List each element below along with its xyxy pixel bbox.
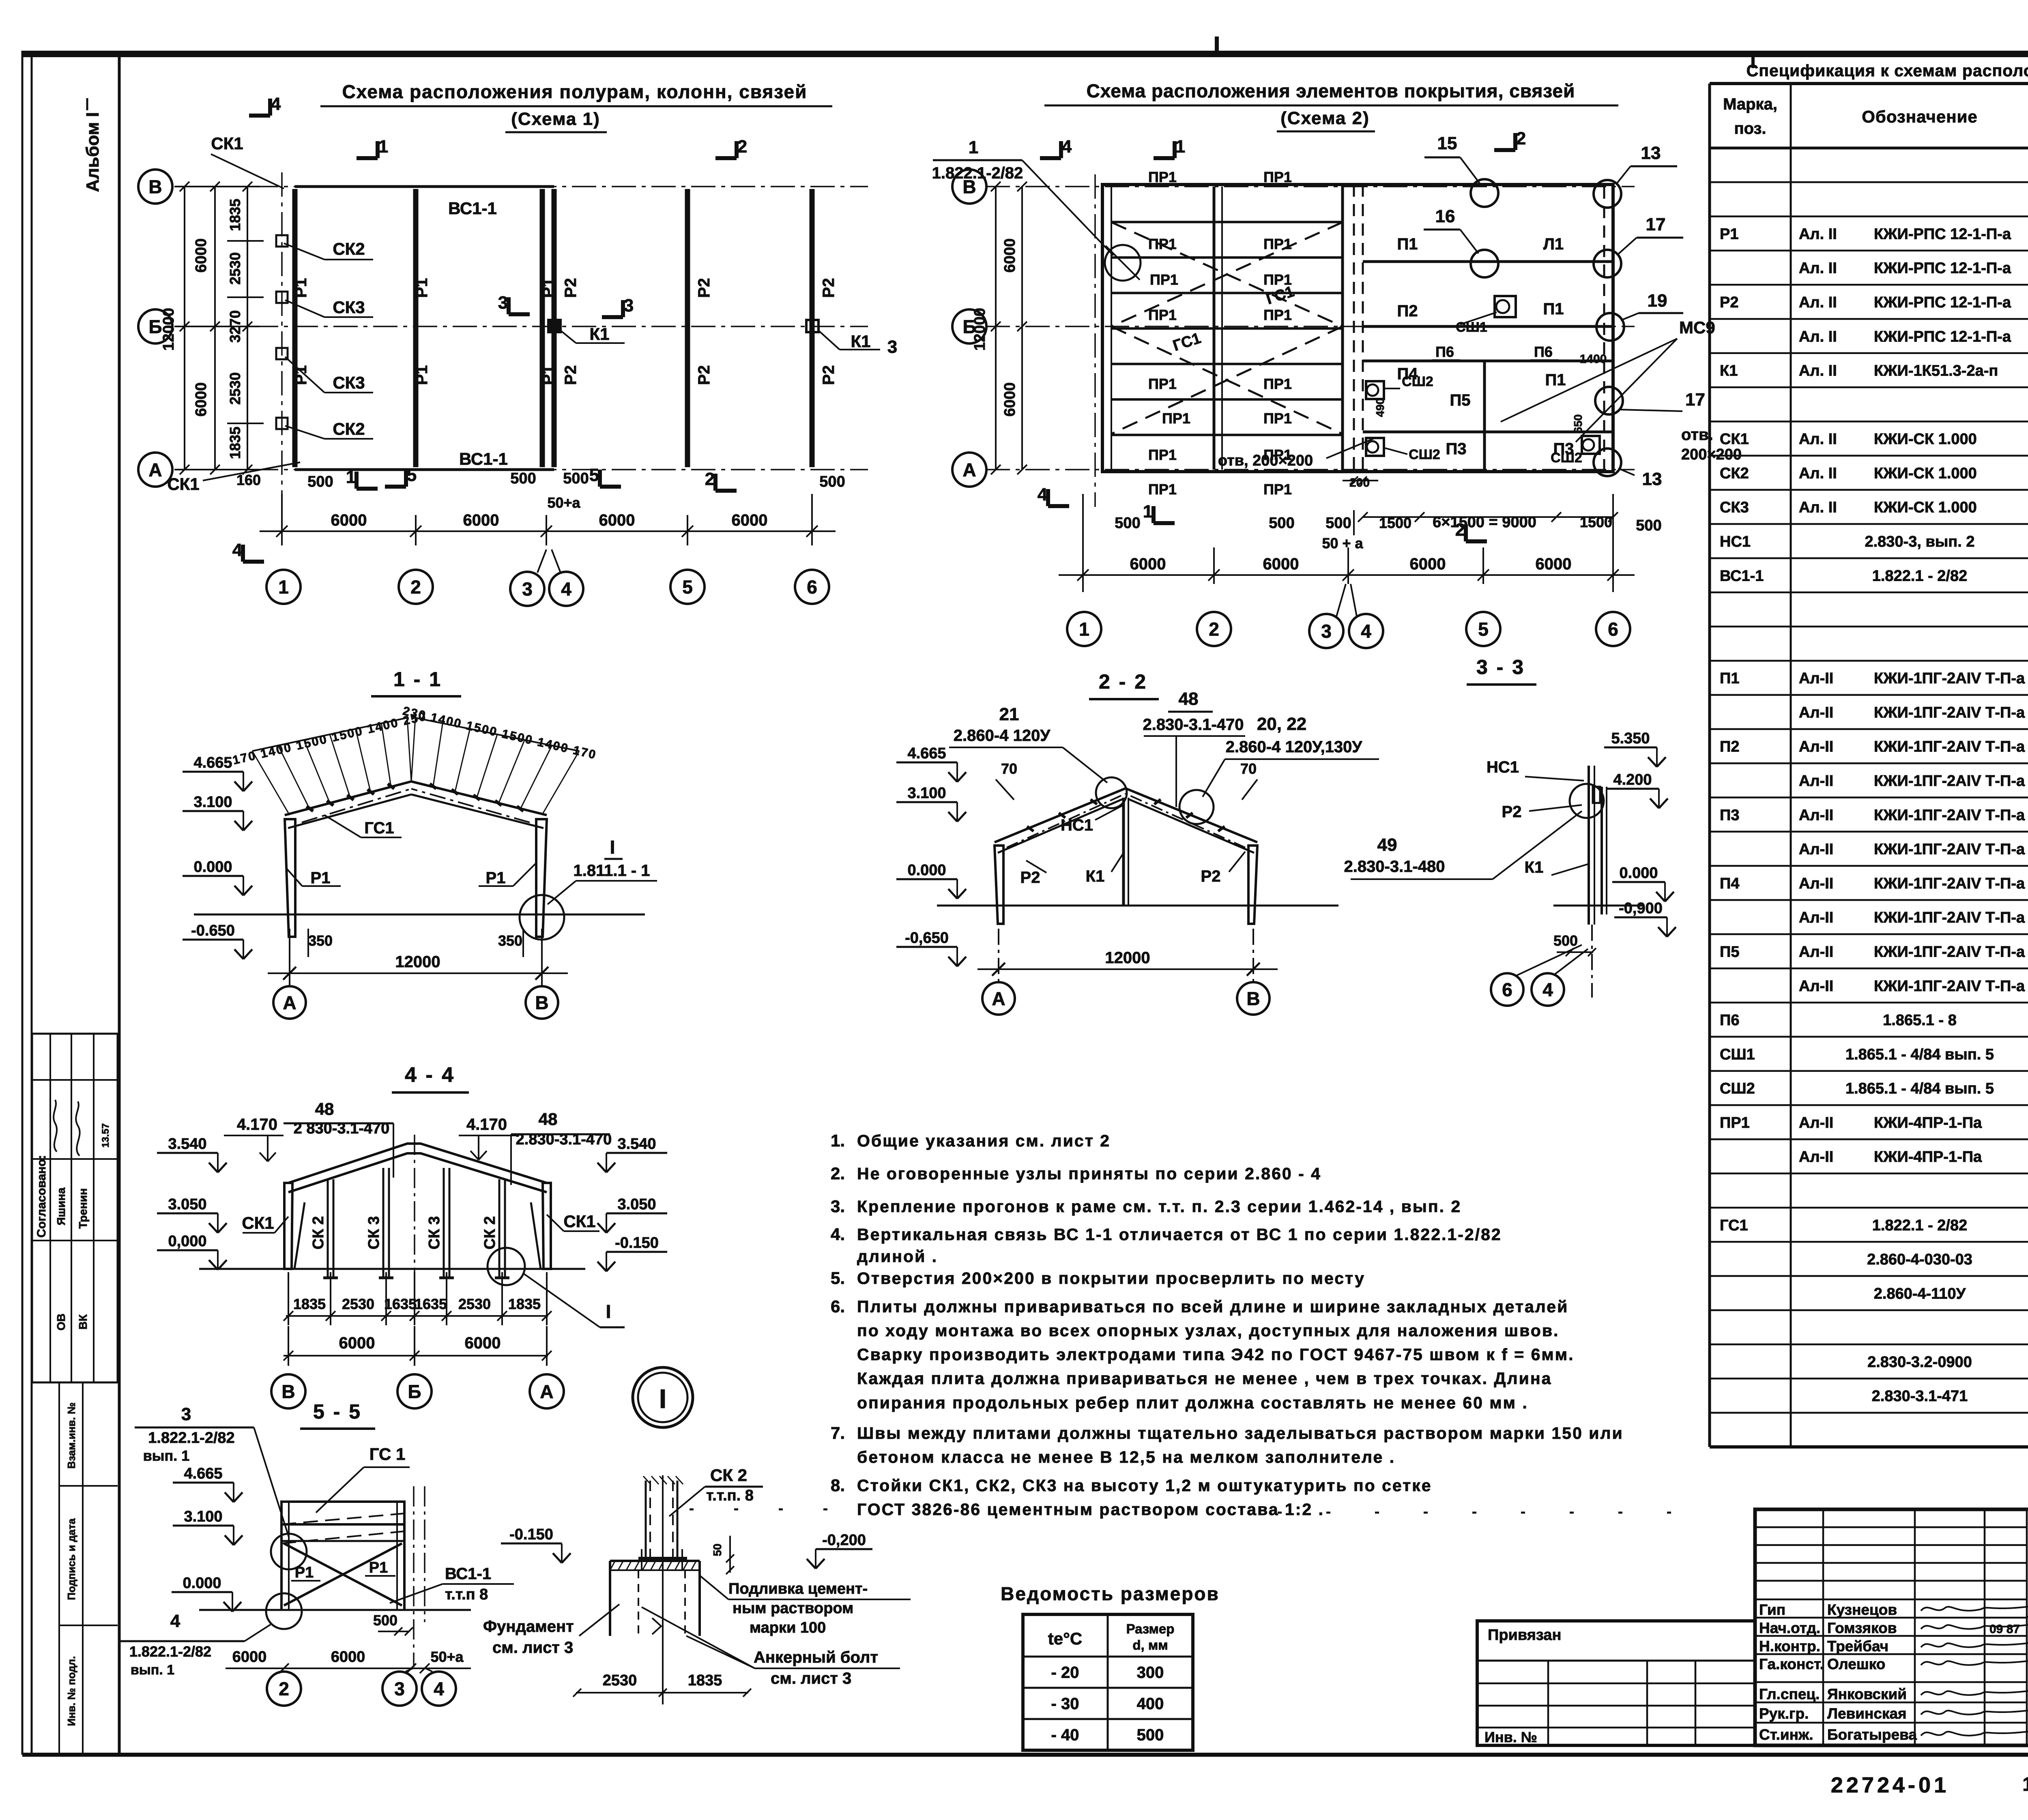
svg-text:Ал-II: Ал-II — [1799, 738, 1833, 755]
svg-text:Р1: Р1 — [413, 365, 431, 385]
svg-text:500: 500 — [1137, 1726, 1164, 1744]
svg-text:1835: 1835 — [688, 1672, 722, 1689]
svg-text:-0,650: -0,650 — [905, 929, 949, 946]
svg-text:2530: 2530 — [458, 1296, 491, 1312]
svg-text:ВС1-1: ВС1-1 — [448, 199, 497, 218]
svg-text:3.540: 3.540 — [168, 1135, 206, 1153]
svg-text:-0,200: -0,200 — [822, 1532, 866, 1549]
svg-text:16: 16 — [1435, 206, 1455, 226]
svg-text:6000: 6000 — [732, 511, 768, 529]
svg-text:3.: 3. — [831, 1197, 845, 1216]
svg-text:Рук.гр.: Рук.гр. — [1759, 1705, 1809, 1722]
svg-text:ПР1: ПР1 — [1148, 446, 1177, 463]
svg-text:Каждая плита должна привари: Каждая плита должна привариваться не мен… — [857, 1369, 1552, 1388]
svg-text:0,000: 0,000 — [168, 1233, 206, 1250]
svg-text:- 30: - 30 — [1051, 1695, 1079, 1713]
svg-text:СК 3: СК 3 — [426, 1216, 443, 1249]
svg-text:Спецификация к схемам располож: Спецификация к схемам расположения полур… — [1747, 61, 2028, 80]
svg-text:Анкерный болт: Анкерный болт — [754, 1648, 878, 1666]
svg-text:Янковский: Янковский — [1827, 1686, 1907, 1702]
svg-text:6000: 6000 — [193, 382, 210, 417]
svg-text:Р1: Р1 — [539, 365, 557, 385]
svg-text:Ал-II: Ал-II — [1799, 909, 1833, 926]
svg-text:ВК: ВК — [77, 1314, 89, 1329]
svg-text:4: 4 — [271, 94, 281, 114]
svg-text:500: 500 — [1269, 515, 1294, 532]
svg-text:3: 3 — [522, 579, 533, 600]
svg-text:Подпись и дата: Подпись и дата — [65, 1518, 77, 1600]
svg-text:5: 5 — [407, 465, 417, 485]
svg-text:т.т.п. 8: т.т.п. 8 — [706, 1487, 754, 1504]
svg-text:7.: 7. — [831, 1423, 845, 1442]
svg-text:1.822.1-2/82: 1.822.1-2/82 — [129, 1643, 211, 1660]
svg-text:50+a: 50+a — [430, 1648, 464, 1665]
svg-text:2: 2 — [737, 137, 747, 157]
svg-text:Ал-II: Ал-II — [1799, 875, 1833, 892]
svg-text:ПР1: ПР1 — [1263, 169, 1292, 185]
svg-text:48: 48 — [1179, 689, 1199, 709]
svg-text:4.665: 4.665 — [184, 1465, 222, 1482]
svg-text:Р2: Р2 — [1502, 803, 1522, 821]
svg-text:КЖИ-1ПГ-2АIV Т-П-а: КЖИ-1ПГ-2АIV Т-П-а — [1874, 704, 2025, 721]
svg-text:ПР1: ПР1 — [1263, 481, 1292, 498]
svg-text:КЖИ-РПС 12-1-П-а: КЖИ-РПС 12-1-П-а — [1874, 328, 2011, 345]
svg-text:СК2: СК2 — [1720, 465, 1749, 482]
svg-text:ПР1: ПР1 — [1148, 307, 1177, 323]
svg-text:500: 500 — [1553, 932, 1578, 949]
svg-text:2.830-3.1-470: 2.830-3.1-470 — [1143, 716, 1244, 734]
svg-text:Р1: Р1 — [1720, 225, 1738, 243]
svg-text:6000: 6000 — [599, 511, 635, 529]
svg-text:1: 1 — [1175, 137, 1185, 157]
svg-text:2.860-4 120У: 2.860-4 120У — [954, 727, 1051, 745]
svg-text:вып. 1: вып. 1 — [143, 1447, 190, 1464]
svg-text:6000: 6000 — [1410, 555, 1446, 573]
svg-text:П4: П4 — [1720, 875, 1739, 892]
svg-text:А: А — [148, 459, 162, 481]
svg-text:Р2: Р2 — [820, 365, 838, 385]
svg-text:Размер: Размер — [1126, 1621, 1175, 1636]
svg-text:0.000: 0.000 — [907, 862, 946, 879]
svg-text:6000: 6000 — [1001, 238, 1018, 273]
svg-text:4.665: 4.665 — [907, 745, 946, 762]
svg-text:вып. 1: вып. 1 — [131, 1662, 174, 1678]
svg-text:2: 2 — [705, 469, 715, 489]
svg-text:Р2: Р2 — [1720, 294, 1738, 311]
svg-text:Ал-II: Ал-II — [1799, 773, 1833, 790]
svg-text:400: 400 — [1137, 1695, 1164, 1713]
svg-text:КЖИ-4ПР-1-Па: КЖИ-4ПР-1-Па — [1874, 1148, 1982, 1165]
svg-text:Р1: Р1 — [486, 869, 506, 887]
svg-text:3.050: 3.050 — [168, 1196, 206, 1213]
svg-text:6000: 6000 — [193, 238, 210, 273]
svg-text:Отверстия 200×200 в покрыти: Отверстия 200×200 в покрытии просверлить… — [857, 1269, 1365, 1288]
svg-text:бетоном класса не менее В: бетоном класса не менее В 12,5 на мелком… — [857, 1448, 1395, 1466]
svg-text:Гип: Гип — [1759, 1601, 1785, 1618]
svg-text:Левинская: Левинская — [1827, 1705, 1907, 1722]
svg-text:1: 1 — [278, 577, 289, 598]
svg-text:Р2: Р2 — [695, 365, 713, 385]
svg-text:КЖИ-4ПР-1-Па: КЖИ-4ПР-1-Па — [1874, 1114, 1982, 1131]
svg-text:1.822.1-2/82: 1.822.1-2/82 — [932, 164, 1023, 182]
svg-text:21: 21 — [999, 704, 1019, 724]
svg-text:48: 48 — [315, 1099, 334, 1118]
svg-text:СШ1: СШ1 — [1720, 1046, 1755, 1063]
svg-text:ПР1: ПР1 — [1263, 307, 1292, 323]
svg-text:17: 17 — [2022, 1774, 2028, 1795]
svg-text:1.822.1 - 2/82: 1.822.1 - 2/82 — [1872, 567, 1968, 584]
svg-text:1.822.1 - 2/82: 1.822.1 - 2/82 — [1872, 1217, 1968, 1234]
svg-text:Фундамент: Фундамент — [483, 1618, 574, 1635]
svg-text:09 87: 09 87 — [1989, 1623, 2020, 1636]
svg-text:ПР1: ПР1 — [1263, 376, 1292, 392]
svg-text:1635: 1635 — [384, 1296, 417, 1312]
svg-text:КЖИ-РПС 12-1-П-а: КЖИ-РПС 12-1-П-а — [1874, 294, 2011, 311]
svg-text:12000: 12000 — [1105, 949, 1150, 967]
svg-text:350: 350 — [308, 932, 333, 949]
svg-text:Р1: Р1 — [295, 1564, 314, 1581]
svg-text:6: 6 — [1502, 979, 1512, 1000]
svg-text:1400: 1400 — [1580, 352, 1607, 366]
svg-text:Швы между плитами должны т: Швы между плитами должны тщательно задел… — [857, 1424, 1624, 1442]
svg-text:Гл.спец.: Гл.спец. — [1759, 1686, 1820, 1702]
svg-text:А: А — [962, 459, 976, 481]
svg-text:4: 4 — [1062, 137, 1072, 157]
svg-text:Ал-II: Ал-II — [1799, 841, 1833, 858]
svg-text:КЖИ-СК 1.000: КЖИ-СК 1.000 — [1874, 431, 1977, 448]
svg-text:3.100: 3.100 — [907, 785, 946, 802]
svg-text:В: В — [1246, 988, 1260, 1009]
svg-text:1.811.1 - 1: 1.811.1 - 1 — [573, 862, 650, 880]
svg-text:СК3: СК3 — [333, 298, 365, 317]
svg-text:1.822.1-2/82: 1.822.1-2/82 — [148, 1429, 234, 1447]
svg-text:490: 490 — [1374, 398, 1386, 417]
svg-text:4: 4 — [1361, 621, 1371, 642]
svg-text:ВС1-1: ВС1-1 — [1720, 567, 1764, 584]
svg-text:НС1: НС1 — [1061, 816, 1093, 834]
svg-text:Вертикальная связь ВС 1-1 о: Вертикальная связь ВС 1-1 отличается от … — [857, 1225, 1502, 1244]
svg-text:Ал. II: Ал. II — [1799, 499, 1837, 516]
svg-text:КЖИ-1ПГ-2АIV Т-П-а: КЖИ-1ПГ-2АIV Т-П-а — [1874, 943, 2025, 960]
svg-text:А: А — [283, 992, 296, 1013]
svg-text:17: 17 — [1685, 390, 1705, 410]
svg-text:ГОСТ 3826-86 цементным раст: ГОСТ 3826-86 цементным раствором состава… — [857, 1500, 1324, 1519]
svg-text:3.540: 3.540 — [617, 1135, 656, 1153]
svg-text:СШ2: СШ2 — [1551, 450, 1582, 466]
svg-text:КЖИ-1ПГ-2АIV Т-П-а: КЖИ-1ПГ-2АIV Т-П-а — [1874, 773, 2025, 790]
svg-text:5: 5 — [682, 577, 693, 598]
svg-text:К1: К1 — [1525, 858, 1544, 876]
svg-text:-0.150: -0.150 — [509, 1526, 553, 1543]
svg-text:КЖИ-1К51.3-2а-п: КЖИ-1К51.3-2а-п — [1874, 363, 1998, 380]
svg-text:СК3: СК3 — [1720, 499, 1749, 516]
svg-text:13: 13 — [1642, 469, 1662, 489]
svg-text:СШ1: СШ1 — [1456, 320, 1487, 335]
svg-text:1: 1 — [969, 137, 978, 157]
svg-text:6000: 6000 — [331, 511, 367, 529]
svg-text:Согласовано:: Согласовано: — [35, 1155, 48, 1238]
svg-text:50+a: 50+a — [547, 494, 580, 511]
svg-text:П6: П6 — [1534, 343, 1553, 360]
svg-text:Ведомость размеров: Ведомость размеров — [1001, 1583, 1220, 1604]
svg-text:350: 350 — [498, 932, 522, 949]
svg-text:5.350: 5.350 — [1611, 730, 1650, 747]
svg-text:Б: Б — [408, 1381, 421, 1402]
svg-text:200×200: 200×200 — [1681, 446, 1742, 463]
svg-text:2530: 2530 — [603, 1672, 637, 1689]
svg-text:СК 2: СК 2 — [710, 1466, 747, 1485]
svg-text:2.830-3.1-471: 2.830-3.1-471 — [1872, 1388, 1968, 1405]
svg-text:12000: 12000 — [160, 308, 177, 351]
svg-text:КЖИ-1ПГ-2АIV Т-П-а: КЖИ-1ПГ-2АIV Т-П-а — [1874, 909, 2025, 926]
svg-text:500: 500 — [1636, 517, 1661, 534]
svg-text:марки 100: марки 100 — [750, 1619, 826, 1636]
svg-text:3: 3 — [1321, 621, 1332, 642]
svg-text:Ал-II: Ал-II — [1799, 1114, 1833, 1131]
svg-text:СК2: СК2 — [333, 239, 365, 258]
svg-text:СК1: СК1 — [242, 1213, 274, 1232]
svg-text:Обозначение: Обозначение — [1862, 107, 1978, 126]
svg-text:d, мм: d, мм — [1132, 1638, 1168, 1653]
svg-text:2: 2 — [279, 1678, 289, 1700]
svg-text:22724-01: 22724-01 — [1831, 1773, 1949, 1797]
svg-text:6000: 6000 — [1001, 382, 1018, 417]
svg-text:СШ2: СШ2 — [1402, 374, 1433, 389]
svg-text:КЖИ-СК 1.000: КЖИ-СК 1.000 — [1874, 499, 1977, 516]
svg-text:Р1: Р1 — [292, 365, 310, 385]
svg-text:Привязан: Привязан — [1488, 1627, 1561, 1644]
svg-text:В: В — [281, 1381, 295, 1402]
svg-text:70: 70 — [1240, 760, 1257, 777]
svg-text:П1: П1 — [1543, 300, 1564, 318]
svg-text:Р1: Р1 — [369, 1559, 388, 1576]
svg-text:Кузнецов: Кузнецов — [1827, 1601, 1897, 1618]
svg-text:Ал-II: Ал-II — [1799, 807, 1833, 824]
svg-text:0.000: 0.000 — [193, 858, 232, 876]
svg-text:Марка,: Марка, — [1723, 95, 1777, 113]
svg-text:см. лист 3: см. лист 3 — [492, 1639, 573, 1657]
svg-text:2: 2 — [1209, 619, 1219, 640]
svg-text:Схема расположения элементов п: Схема расположения элементов покрытия, с… — [1087, 80, 1575, 101]
svg-text:500: 500 — [819, 473, 845, 490]
svg-text:П3: П3 — [1446, 440, 1467, 458]
svg-text:13.57: 13.57 — [100, 1123, 111, 1148]
svg-text:500: 500 — [510, 470, 536, 487]
svg-text:Тренин: Тренин — [77, 1188, 89, 1229]
svg-text:3: 3 — [181, 1404, 191, 1424]
svg-text:3: 3 — [624, 296, 634, 315]
svg-text:Р2: Р2 — [1201, 867, 1221, 885]
svg-text:ПР1: ПР1 — [1148, 376, 1177, 392]
svg-text:0.000: 0.000 — [1619, 865, 1658, 882]
svg-text:2 - 2: 2 - 2 — [1099, 670, 1147, 693]
svg-text:П1: П1 — [1720, 670, 1739, 687]
svg-text:-0.650: -0.650 — [191, 922, 235, 939]
svg-text:500: 500 — [307, 473, 333, 490]
svg-text:по ходу монтажа во всех оп: по ходу монтажа во всех опорных узлах, д… — [857, 1321, 1559, 1340]
svg-text:170 1400 1500 1500 1400 250: 170 1400 1500 1500 1400 250 — [232, 710, 428, 767]
svg-text:12000: 12000 — [971, 308, 988, 351]
svg-text:20, 22: 20, 22 — [1257, 714, 1306, 734]
svg-text:-0.150: -0.150 — [615, 1234, 659, 1251]
svg-text:Яшина: Яшина — [55, 1187, 67, 1225]
svg-text:Ст.инж.: Ст.инж. — [1759, 1726, 1813, 1743]
svg-text:К1: К1 — [851, 332, 871, 351]
svg-text:ГС1: ГС1 — [1720, 1217, 1748, 1234]
svg-text:ПР1: ПР1 — [1720, 1114, 1750, 1131]
svg-text:6000: 6000 — [331, 1648, 365, 1665]
svg-text:Ал. II: Ал. II — [1799, 431, 1837, 448]
svg-text:4.170: 4.170 — [237, 1116, 277, 1133]
svg-text:2: 2 — [410, 577, 421, 598]
svg-text:КЖИ-РПС 12-1-П-а: КЖИ-РПС 12-1-П-а — [1874, 260, 2011, 277]
svg-text:поз.: поз. — [1734, 120, 1766, 137]
svg-text:Р1: Р1 — [539, 278, 557, 298]
svg-text:6.: 6. — [831, 1297, 845, 1316]
svg-text:6000: 6000 — [232, 1648, 267, 1665]
svg-text:Ал. II: Ал. II — [1799, 225, 1837, 243]
svg-text:650: 650 — [1572, 414, 1584, 434]
svg-text:Га.конст.: Га.конст. — [1759, 1656, 1824, 1672]
svg-text:Р2: Р2 — [562, 278, 580, 298]
svg-text:Р2: Р2 — [562, 365, 580, 385]
svg-text:КЖИ-1ПГ-2АIV Т-П-а: КЖИ-1ПГ-2АIV Т-П-а — [1874, 807, 2025, 824]
svg-text:4: 4 — [170, 1611, 180, 1631]
svg-text:Л1: Л1 — [1543, 235, 1564, 253]
svg-text:Инв. №: Инв. № — [1484, 1729, 1537, 1745]
svg-text:КЖИ-РПС 12-1-П-а: КЖИ-РПС 12-1-П-а — [1874, 225, 2011, 243]
svg-text:ПР1: ПР1 — [1148, 481, 1177, 498]
svg-text:ным раствором: ным раствором — [733, 1600, 853, 1617]
svg-text:СК 2: СК 2 — [481, 1216, 498, 1249]
svg-text:Ал-II: Ал-II — [1799, 670, 1833, 687]
svg-text:ПР1: ПР1 — [1263, 236, 1292, 252]
svg-text:К1: К1 — [590, 324, 610, 343]
svg-text:- 20: - 20 — [1051, 1664, 1079, 1682]
svg-text:Сварку производить электрода: Сварку производить электродами типа Э42 … — [857, 1345, 1574, 1364]
svg-text:2.860-4-030-03: 2.860-4-030-03 — [1867, 1251, 1972, 1268]
svg-text:СК 3: СК 3 — [365, 1216, 382, 1249]
svg-text:6000: 6000 — [1130, 555, 1166, 573]
svg-text:Альбом I: Альбом I — [83, 112, 103, 192]
svg-text:Р2: Р2 — [1020, 869, 1040, 886]
svg-text:СК2: СК2 — [333, 419, 365, 438]
svg-text:2.830-3, вып. 2: 2.830-3, вып. 2 — [1865, 533, 1974, 550]
svg-text:Крепление прогонов к раме: Крепление прогонов к раме см. т.т. п. 2.… — [857, 1197, 1461, 1216]
svg-text:6000: 6000 — [339, 1334, 375, 1352]
svg-text:ПР1: ПР1 — [1148, 169, 1177, 185]
svg-text:3 - 3: 3 - 3 — [1476, 656, 1525, 678]
svg-text:6000: 6000 — [465, 1334, 501, 1352]
svg-text:1.865.1 - 4/84 вып. 5: 1.865.1 - 4/84 вып. 5 — [1845, 1080, 1994, 1097]
svg-text:Н.контр.: Н.контр. — [1759, 1638, 1820, 1655]
svg-text:160: 160 — [236, 472, 261, 488]
svg-text:1635: 1635 — [415, 1296, 447, 1312]
svg-text:СШ2: СШ2 — [1409, 447, 1440, 462]
svg-text:4: 4 — [1542, 979, 1553, 1000]
svg-text:1.865.1 - 8: 1.865.1 - 8 — [1883, 1012, 1957, 1029]
svg-text:2530: 2530 — [227, 372, 243, 405]
svg-text:В: В — [535, 992, 548, 1013]
svg-text:15: 15 — [1437, 133, 1457, 153]
svg-text:П6: П6 — [1720, 1012, 1739, 1029]
svg-text:I: I — [659, 1384, 666, 1414]
svg-text:НС1: НС1 — [1487, 758, 1519, 776]
svg-text:Ал. II: Ал. II — [1799, 465, 1837, 482]
svg-text:Подливка цемент-: Подливка цемент- — [728, 1580, 868, 1597]
svg-text:4: 4 — [434, 1678, 444, 1700]
svg-text:500: 500 — [1115, 515, 1140, 532]
svg-text:ОВ: ОВ — [55, 1313, 67, 1331]
svg-text:П2: П2 — [1720, 738, 1739, 755]
svg-text:КЖИ-1ПГ-2АIV Т-П-а: КЖИ-1ПГ-2АIV Т-П-а — [1874, 738, 2025, 755]
svg-text:49: 49 — [1377, 835, 1397, 855]
svg-text:4 - 4: 4 - 4 — [405, 1063, 455, 1087]
svg-text:3: 3 — [394, 1678, 405, 1700]
svg-text:(Схема 1): (Схема 1) — [511, 109, 600, 129]
svg-text:12000: 12000 — [395, 953, 440, 971]
svg-text:К1: К1 — [1720, 363, 1738, 380]
svg-text:3.100: 3.100 — [193, 794, 232, 811]
svg-text:(Схема 2): (Схема 2) — [1280, 108, 1369, 128]
svg-text:Ал-II: Ал-II — [1799, 943, 1833, 960]
svg-text:6000: 6000 — [463, 511, 499, 529]
svg-text:КЖИ-1ПГ-2АIV Т-П-а: КЖИ-1ПГ-2АIV Т-П-а — [1874, 978, 2025, 995]
svg-text:Р2: Р2 — [695, 278, 713, 298]
svg-text:3270: 3270 — [227, 310, 243, 343]
svg-text:50 + a: 50 + a — [1322, 535, 1363, 552]
svg-text:-0,900: -0,900 — [1619, 900, 1663, 917]
svg-text:СК 2: СК 2 — [310, 1216, 327, 1249]
svg-text:6: 6 — [807, 577, 817, 598]
svg-text:6000: 6000 — [1536, 555, 1572, 573]
svg-text:2.860-4-110У: 2.860-4-110У — [1874, 1285, 1966, 1302]
svg-text:4.170: 4.170 — [466, 1116, 507, 1133]
svg-text:500: 500 — [373, 1612, 397, 1629]
svg-text:2.860-4 120У,130У: 2.860-4 120У,130У — [1226, 738, 1363, 756]
svg-text:I: I — [606, 1301, 611, 1322]
svg-text:3: 3 — [887, 337, 897, 357]
svg-text:В: В — [148, 176, 162, 197]
svg-text:длиной .: длиной . — [857, 1247, 938, 1266]
svg-text:300: 300 — [1137, 1664, 1164, 1682]
svg-text:Ал-II: Ал-II — [1799, 1148, 1833, 1165]
svg-text:3.100: 3.100 — [184, 1508, 222, 1525]
svg-text:К1: К1 — [1086, 867, 1105, 885]
svg-text:Ал. II: Ал. II — [1799, 363, 1837, 380]
svg-text:А: А — [540, 1381, 553, 1402]
svg-text:Р2: Р2 — [820, 278, 838, 298]
svg-text:1: 1 — [378, 137, 388, 157]
svg-text:6000: 6000 — [1263, 555, 1299, 573]
svg-text:КЖИ-СК 1.000: КЖИ-СК 1.000 — [1874, 465, 1977, 482]
svg-text:1835: 1835 — [508, 1296, 541, 1312]
svg-text:4: 4 — [1038, 485, 1048, 504]
svg-text:Стойки СК1, СК2, СК3 на в: Стойки СК1, СК2, СК3 на высоту 1,2 м ошт… — [857, 1476, 1432, 1495]
svg-text:1835: 1835 — [227, 427, 243, 459]
svg-text:ГС 1: ГС 1 — [370, 1444, 406, 1464]
svg-text:8.: 8. — [831, 1476, 845, 1495]
svg-text:5 - 5: 5 - 5 — [313, 1400, 362, 1423]
svg-text:П2: П2 — [1397, 302, 1418, 320]
svg-text:СК1: СК1 — [211, 134, 243, 153]
svg-text:ГС1: ГС1 — [364, 819, 394, 837]
svg-text:П5: П5 — [1720, 943, 1739, 960]
svg-text:500: 500 — [1326, 515, 1351, 532]
svg-text:ПР1: ПР1 — [1162, 410, 1190, 427]
svg-text:2: 2 — [1516, 129, 1526, 148]
svg-text:13: 13 — [1641, 143, 1661, 163]
